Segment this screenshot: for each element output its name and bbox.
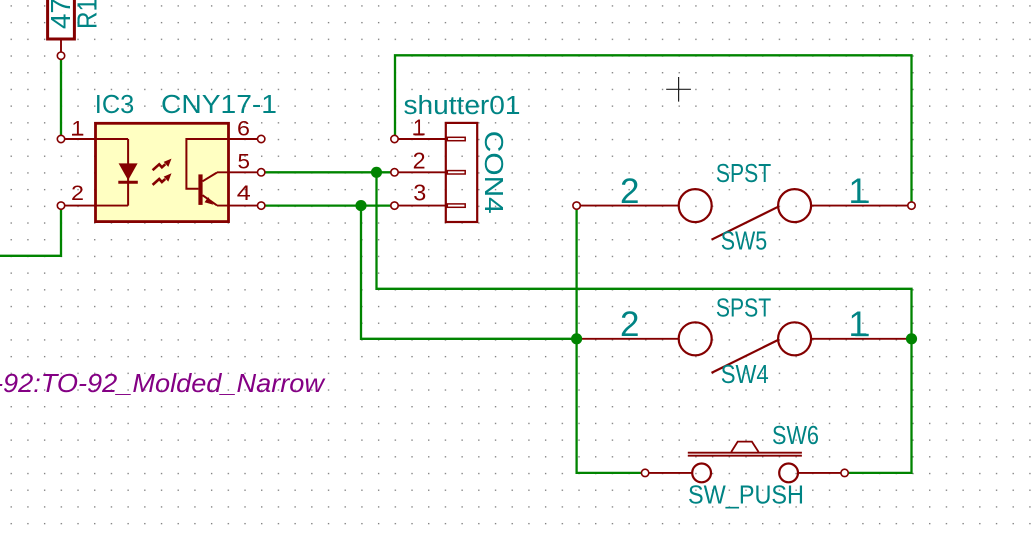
wire top: CON4 pin1 up, across, down to SW5 pin1 bbox=[395, 55, 912, 204]
switch SW4 pin 2 line bbox=[577, 338, 679, 340]
opto pin 2 bbox=[61, 205, 128, 207]
svg-text:SW_PUSH: SW_PUSH bbox=[688, 480, 804, 510]
resistor R1 bbox=[48, 0, 75, 52]
wire SW5 pin2 down to SW6 left bbox=[577, 207, 643, 473]
wire junction pin4 down and across to SW4 pin2 bbox=[361, 207, 577, 339]
pin end circle SW5 left bbox=[573, 202, 580, 209]
SW5 right contact bbox=[778, 189, 811, 222]
svg-text:4: 4 bbox=[237, 182, 251, 205]
svg-text:CON4: CON4 bbox=[479, 131, 507, 214]
wire opto pin 5 to CON4 pin 2 bbox=[264, 171, 392, 173]
SW6 left contact bbox=[692, 464, 711, 483]
SW6 right contact bbox=[779, 464, 798, 483]
pin end circle opto 4 bbox=[258, 202, 265, 209]
push button SW6 pin lines bbox=[645, 472, 692, 474]
svg-text:SW4: SW4 bbox=[721, 359, 769, 389]
opto pin 6 bbox=[229, 138, 262, 140]
cursor crosshair bbox=[666, 77, 691, 102]
phototransistor base path from pin 6 bbox=[186, 139, 228, 189]
LED D triangle bbox=[119, 163, 138, 180]
pin end circle CON4 3 bbox=[391, 202, 398, 209]
emitter arrowhead bbox=[205, 197, 214, 205]
svg-text:SW5: SW5 bbox=[721, 225, 768, 255]
pin end circle SW6 right bbox=[841, 469, 848, 476]
SW4 right contact bbox=[778, 322, 811, 355]
junction at SW4 pin 2 bbox=[571, 333, 582, 344]
opto pin 4 bbox=[217, 205, 261, 207]
pin end circle opto 6 bbox=[258, 135, 265, 142]
svg-text:1: 1 bbox=[413, 114, 425, 140]
switch SW5 pin 2 line bbox=[577, 205, 679, 207]
wire opto pin 2 to left edge bbox=[0, 207, 61, 256]
LED vertical wire bbox=[127, 139, 129, 206]
svg-text:SW6: SW6 bbox=[772, 420, 819, 450]
pin end circle CON4 1 bbox=[391, 135, 398, 142]
wire R1 to opto pin 1 bbox=[60, 58, 62, 140]
svg-text:R1: R1 bbox=[72, 0, 103, 29]
pin end circle CON4 2 bbox=[391, 169, 398, 176]
SW5 lever bbox=[712, 206, 780, 239]
pin end circle opto 5 bbox=[258, 169, 265, 176]
svg-text:6: 6 bbox=[237, 117, 250, 140]
svg-text:IC3: IC3 bbox=[95, 91, 135, 119]
svg-text:2: 2 bbox=[620, 305, 639, 344]
SW6 actuator bar bbox=[688, 453, 802, 456]
svg-text:1: 1 bbox=[72, 118, 84, 141]
CON4 pin 1 tab bbox=[447, 137, 465, 140]
CON4 pin 2 tab bbox=[447, 171, 465, 174]
switch SW5 pin 1 line bbox=[811, 205, 911, 207]
wire opto pin 4 to CON4 pin 3 bbox=[264, 204, 392, 206]
pin end circle opto 2 bbox=[57, 202, 64, 209]
SW4 lever bbox=[712, 340, 780, 373]
pin end circle opto 1 bbox=[57, 135, 64, 142]
svg-text:2: 2 bbox=[413, 148, 426, 174]
junction at opto pin4 / CON4 pin3 bbox=[355, 200, 366, 211]
pin end circle R1 bbox=[57, 52, 64, 59]
svg-text:2: 2 bbox=[620, 172, 639, 211]
opto pin 5 bbox=[217, 171, 261, 173]
svg-text:SPST: SPST bbox=[716, 158, 771, 188]
pin end circle SW6 left bbox=[641, 469, 648, 476]
svg-text:1: 1 bbox=[849, 172, 868, 211]
transistor base bar bbox=[198, 174, 202, 205]
svg-text:3: 3 bbox=[413, 180, 426, 206]
light arrow top bbox=[153, 159, 172, 171]
SW6 button trapezoid bbox=[731, 442, 758, 452]
SW4 left contact bbox=[679, 322, 712, 355]
pin end circle SW5 right bbox=[908, 202, 915, 209]
svg-text:SPST: SPST bbox=[716, 293, 771, 323]
LED cathode bar bbox=[118, 181, 138, 184]
connector CON4 body bbox=[446, 123, 477, 222]
junction at opto pin5 / CON4 pin2 bbox=[371, 167, 382, 178]
wire junction pin5 down and across to SW4 pin1 then down to SW6 right bbox=[377, 173, 912, 473]
op-to-coupler IC3 body bbox=[96, 123, 229, 221]
svg-text:CNY17-1: CNY17-1 bbox=[161, 91, 277, 119]
light arrow bottom bbox=[153, 173, 172, 185]
CON4 pin 2 line bbox=[395, 171, 449, 173]
CON4 pin 3 tab bbox=[447, 204, 465, 207]
opto pin 1 bbox=[61, 138, 128, 140]
transistor collector diagonal bbox=[203, 173, 218, 182]
switch SW4 pin 1 line bbox=[811, 338, 911, 340]
junction at SW4 pin 1 bbox=[906, 333, 917, 344]
svg-text:2: 2 bbox=[71, 182, 84, 205]
transistor emitter diagonal bbox=[203, 195, 218, 205]
CON4 pin 1 line bbox=[395, 138, 449, 140]
CON4 pin 3 line bbox=[395, 205, 449, 207]
svg-text:-92:TO-92_Molded_Narrow: -92:TO-92_Molded_Narrow bbox=[0, 368, 326, 398]
svg-text:1: 1 bbox=[849, 305, 868, 344]
svg-text:5: 5 bbox=[238, 151, 251, 174]
SW5 left contact bbox=[679, 189, 712, 222]
